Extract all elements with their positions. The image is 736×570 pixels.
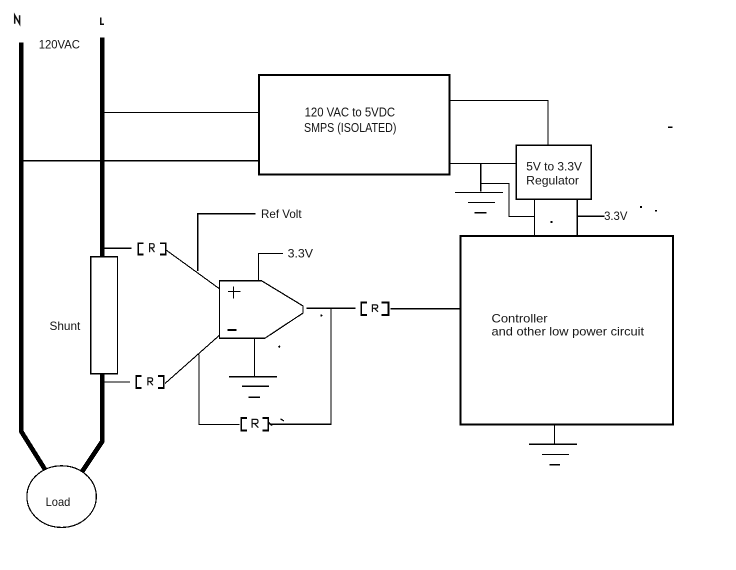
wire SMPS output return to regulator bbox=[450, 162, 516, 164]
stray mark (dash top right) bbox=[668, 126, 673, 128]
wire neutral N (thick) bbox=[21, 43, 46, 472]
svg-text:5V to 3.3V: 5V to 3.3V bbox=[526, 160, 582, 174]
stray mark (zigzag at R3) bbox=[269, 422, 274, 426]
op-amp minus input marker bbox=[227, 329, 236, 331]
feedback wire left bbox=[199, 354, 240, 424]
wire 3.3V supply to op-amp bbox=[258, 252, 283, 254]
svg-text:Load: Load bbox=[46, 495, 71, 509]
wire regulator left pin to controller bbox=[534, 199, 536, 236]
stray mark (dot below regulator) bbox=[550, 221, 552, 223]
ground (op-amp) bbox=[254, 338, 256, 376]
ground (controller) bbox=[553, 425, 555, 444]
svg-text:3.3V: 3.3V bbox=[288, 246, 313, 260]
op-amp plus input marker bbox=[228, 286, 241, 298]
resistor R4 (output) bbox=[361, 303, 388, 316]
load M1 circle bbox=[27, 466, 96, 528]
resistor R1 (top sense) bbox=[138, 243, 166, 254]
wire L to resistor R2 bbox=[105, 381, 131, 383]
wire L to SMPS input bbox=[105, 111, 260, 113]
wire Ref Volt bbox=[198, 214, 256, 271]
wire R4 to controller bbox=[390, 308, 460, 310]
wire 3.3V output stub bbox=[577, 215, 604, 217]
svg-text:120VAC: 120VAC bbox=[39, 38, 81, 52]
stray mark (dot pair right of regulator) bbox=[640, 206, 642, 208]
feedback wire right bbox=[272, 308, 331, 424]
svg-text:3.3V: 3.3V bbox=[604, 209, 627, 223]
wire SMPS ground to regulator GND pin bbox=[481, 184, 535, 217]
svg-text:Ref Volt: Ref Volt bbox=[261, 207, 302, 221]
op-amp U4 bbox=[220, 281, 304, 339]
wire SMPS 5V output top to regulator bbox=[450, 100, 548, 145]
node N label bbox=[15, 15, 20, 24]
wire line L (thick) bbox=[81, 38, 102, 474]
svg-text:Controller: Controller bbox=[492, 312, 548, 326]
wire regulator right pin to controller bbox=[576, 199, 578, 236]
svg-text:Regulator: Regulator bbox=[526, 173, 579, 187]
stray mark (tick above wire) bbox=[281, 419, 285, 421]
wire R1 to op-amp + input (diagonal) bbox=[167, 250, 220, 288]
svg-text:SMPS (ISOLATED): SMPS (ISOLATED) bbox=[304, 120, 396, 135]
ground (SMPS output) bbox=[480, 163, 482, 192]
regulator U2 box bbox=[516, 145, 591, 199]
wire R2 to op-amp - input (diagonal) bbox=[165, 335, 219, 383]
SMPS U1 box bbox=[259, 75, 450, 175]
resistor R2 (bottom sense) bbox=[136, 376, 164, 388]
shunt resistor box bbox=[91, 257, 118, 374]
stray mark (dot below op-amp) bbox=[278, 346, 280, 348]
node L label bbox=[100, 18, 104, 25]
controller U3 box bbox=[461, 236, 674, 425]
resistor R3 (feedback) bbox=[241, 418, 268, 430]
wire op-amp output bbox=[306, 307, 355, 309]
svg-text:Shunt: Shunt bbox=[50, 319, 81, 333]
svg-text:120 VAC to 5VDC: 120 VAC to 5VDC bbox=[305, 105, 396, 120]
svg-text:and other low power circuit: and other low power circuit bbox=[492, 325, 645, 339]
stray mark (dot at op-amp output) bbox=[320, 314, 322, 316]
wire N to SMPS input bbox=[19, 160, 260, 162]
wire L to resistor R1 bbox=[105, 247, 132, 249]
